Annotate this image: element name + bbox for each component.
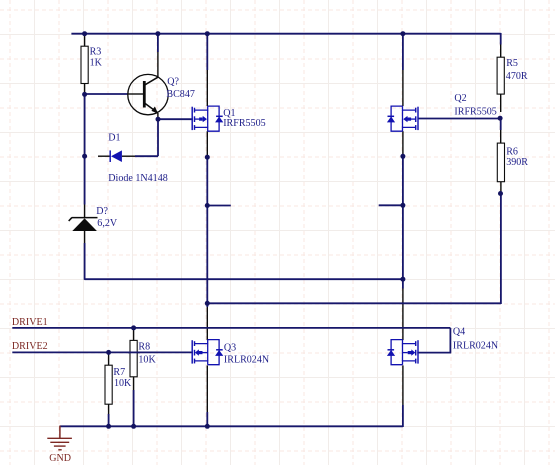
wire emitter node down [157, 119, 159, 156]
wire Q3 source to bottom rail [206, 412, 208, 426]
junction mid wire start [205, 301, 210, 306]
svg-text:1K: 1K [90, 58, 103, 69]
wire top rail drop to R5 [500, 33, 502, 45]
wire horizontal zener leg to Q2/Q4 node [85, 278, 403, 280]
pin Q2 source [402, 131, 404, 156]
junction R3 / base / left vertical [82, 92, 87, 97]
wire top supply rail [71, 33, 500, 35]
pin R8 top [133, 328, 135, 341]
svg-text:D1: D1 [108, 132, 120, 143]
svg-text:R3: R3 [90, 47, 102, 58]
svg-text:10K: 10K [138, 355, 156, 366]
pin Q2 drain [402, 70, 404, 106]
svg-text:DRIVE1: DRIVE1 [12, 317, 48, 328]
junction below Q1 source [205, 155, 210, 160]
wire DRIVE1 net [12, 327, 450, 329]
junction left stub [205, 203, 210, 208]
svg-text:IRFR5505: IRFR5505 [454, 106, 496, 117]
pin Q3 drain [206, 307, 208, 340]
mosfet Q2 IRFR5505 (P-channel, mirrored) [387, 106, 418, 131]
junction bottom rail / R8 [131, 424, 136, 429]
pin R7 bottom [108, 404, 110, 414]
junction R6 bottom [498, 191, 503, 196]
pin R6 bottom [500, 182, 502, 194]
mosfet Q3 IRLR024N (N-channel) [192, 340, 223, 365]
ground GND power port [47, 426, 72, 450]
pin R5 bottom [500, 94, 502, 112]
junction top rail / Q2 drain [400, 31, 405, 36]
resistor R6 [497, 143, 504, 182]
pin D1 cathode [98, 155, 110, 157]
pin R3 top [84, 34, 86, 47]
svg-text:6,2V: 6,2V [97, 218, 118, 229]
pin BC847 base [128, 93, 143, 95]
svg-text:GND: GND [49, 453, 71, 464]
wire DRIVE2 net to Q3 gate [12, 351, 193, 353]
junction bottom rail / R7 [106, 424, 111, 429]
resistor R3 [81, 46, 88, 83]
zener diode D? 6,2V [69, 218, 98, 231]
wire DRIVE1 drop to Q4 gate [449, 328, 451, 353]
svg-text:Q?: Q? [167, 76, 179, 87]
junction bottom rail / Q3 source [205, 424, 210, 429]
wire R6 bottom down to corner [500, 194, 502, 305]
wire R7 bottom to rail [108, 414, 110, 426]
pin D1 anode [122, 155, 135, 157]
svg-text:Q3: Q3 [224, 342, 236, 353]
junction top rail / Q1 drain [205, 31, 210, 36]
svg-text:10K: 10K [114, 378, 132, 389]
pin R5 top [500, 45, 502, 58]
mosfet Q4 IRLR024N (N-channel, mirrored) [387, 340, 418, 365]
pin Q4 drain [402, 289, 404, 341]
junction top rail / BC847 collector [155, 31, 160, 36]
wire left vertical D1 to D? zener [84, 156, 86, 204]
wire R5/R6 junction gap [500, 118, 502, 130]
wire stub left of Q2 source node [379, 204, 403, 206]
wire Q2 source down to Q4 drain (navy part) [402, 156, 404, 288]
svg-text:IRFR5505: IRFR5505 [223, 118, 265, 129]
pin zener anode [84, 231, 86, 243]
junction top rail / R3 [82, 31, 87, 36]
wire R3 node to BC847 base [85, 93, 128, 95]
junction R5 / R6 / Q2 gate [498, 116, 503, 121]
wire Q4 gate lead [417, 352, 451, 354]
resistor R7 [105, 365, 112, 404]
wire R8 bottom to rail [133, 390, 135, 426]
wire BC847 emitter to Q1 gate [158, 118, 193, 120]
svg-text:R8: R8 [138, 342, 150, 353]
svg-text:Diode 1N4148: Diode 1N4148 [108, 173, 167, 184]
pin Q1 drain [206, 70, 208, 106]
wire left vertical R3 to D1 [84, 95, 86, 157]
pin Q4 source [402, 365, 404, 405]
svg-text:R6: R6 [506, 146, 518, 157]
svg-text:Q2: Q2 [454, 93, 466, 104]
svg-text:BC847: BC847 [166, 89, 194, 100]
wire zener anode down [84, 243, 86, 280]
wire Q2 gate to R5/R6 junction [418, 118, 500, 120]
wire top rail to Q1 drain [206, 34, 208, 70]
svg-text:Q4: Q4 [453, 327, 465, 338]
wire horizontal mid node to R6 leg [207, 302, 501, 304]
diode D1 1N4148 [110, 150, 122, 162]
svg-text:390R: 390R [506, 157, 528, 168]
wire D1 anode side [135, 155, 158, 157]
wire stub right of Q1 source node [207, 205, 231, 207]
pin R7 top [108, 352, 110, 365]
junction DRIVE2 / R7 [106, 350, 111, 355]
junction right stub [400, 203, 405, 208]
wire top rail to BC847 collector [157, 34, 159, 52]
junction below Q2 source [400, 154, 405, 159]
transistor Q? BC847 [128, 74, 168, 114]
junction emitter / Q1 gate / D1 [156, 117, 161, 122]
svg-text:IRLR024N: IRLR024N [453, 341, 499, 352]
pin Q1 source [206, 131, 208, 157]
pin R3 bottom [84, 84, 86, 95]
pin Q3 source [206, 365, 208, 412]
pin R6 top [500, 130, 502, 143]
svg-text:R7: R7 [113, 367, 125, 378]
svg-text:DRIVE2: DRIVE2 [12, 341, 48, 352]
resistor R8 [130, 340, 137, 376]
pin BC847 emitter [157, 113, 159, 119]
svg-text:D?: D? [96, 206, 108, 217]
wire Q1 source down to Q3 drain (navy part) [206, 157, 208, 307]
wire bottom ground rail [60, 425, 403, 427]
svg-text:IRLR024N: IRLR024N [224, 355, 270, 366]
wire Q4 source to bottom rail [402, 405, 404, 427]
resistor R5 [497, 57, 504, 94]
pin zener cathode [84, 205, 86, 218]
svg-text:470R: 470R [506, 71, 528, 82]
junction left vertical / D1 [82, 154, 87, 159]
svg-text:R5: R5 [506, 58, 518, 69]
junction zener-leg wire / Q2-Q4 line [400, 277, 405, 282]
pin R8 bottom [133, 377, 135, 390]
wire DRIVE2 over R8 body [128, 351, 140, 353]
mosfet Q1 IRFR5505 (P-channel) [192, 106, 223, 131]
junction DRIVE1 / R8 [131, 325, 136, 330]
wire top rail to Q2 drain [402, 34, 404, 70]
pin BC847 collector [157, 52, 159, 77]
